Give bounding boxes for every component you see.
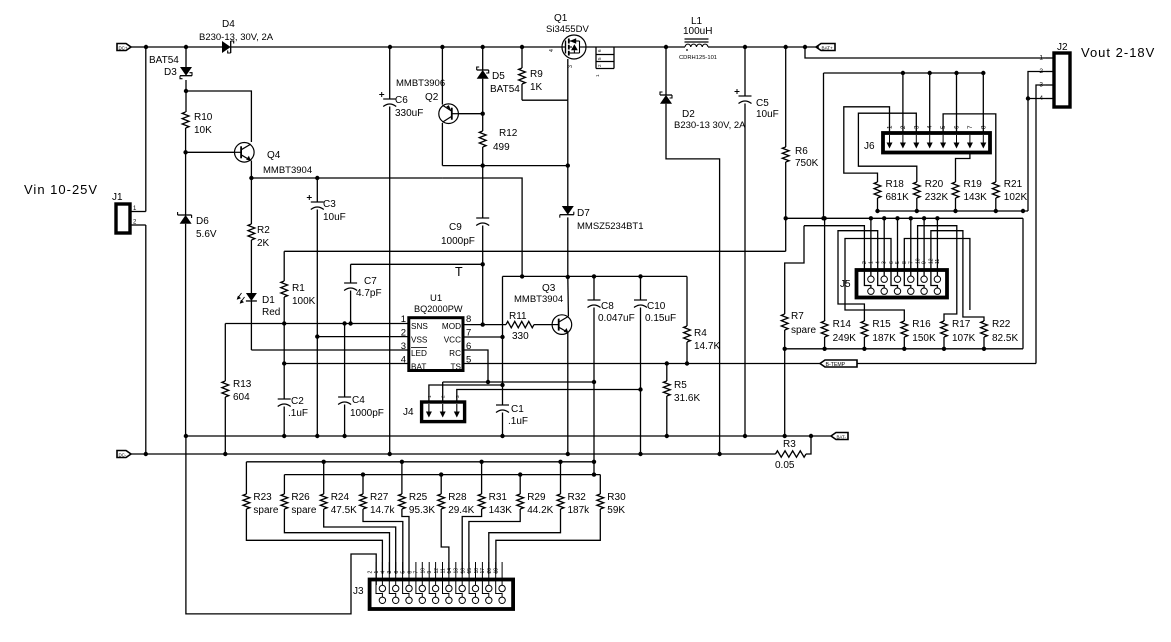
svg-text:R19: R19 (964, 179, 983, 190)
junction R18 bottom (875, 209, 879, 213)
resistor R28 29.4K (438, 475, 445, 514)
svg-text:681K: 681K (886, 192, 910, 203)
label J5 (840, 279, 851, 290)
resistor R6 750K (782, 47, 789, 251)
svg-text:Vin 10-25V: Vin 10-25V (24, 182, 98, 197)
svg-text:VCC: VCC (444, 336, 461, 345)
svg-text:spare: spare (291, 505, 316, 516)
svg-text:J6: J6 (864, 141, 875, 152)
wire route to J3 (489, 514, 561, 574)
svg-text:2: 2 (900, 125, 907, 129)
svg-text:R3: R3 (783, 439, 796, 450)
transistor Q4 MMBT3904 (235, 143, 255, 163)
label R10 value (194, 125, 212, 136)
label Q4 (267, 150, 281, 161)
wire top rail L1 to BAT+ (708, 46, 819, 48)
junction J6 even pin feed (981, 71, 985, 75)
svg-text:R12: R12 (499, 128, 518, 139)
svg-text:5: 5 (597, 57, 602, 60)
svg-text:12: 12 (434, 568, 440, 574)
junction fb rail tie (1021, 209, 1025, 213)
junction RC corner (486, 380, 490, 384)
junction J5 feed (882, 216, 886, 220)
junction C5 top (743, 45, 747, 49)
svg-text:2: 2 (862, 261, 868, 264)
junction Q4 emitter node (249, 176, 253, 180)
junction R27 top (361, 472, 365, 476)
wire D1 to U1 LED pin (251, 349, 408, 351)
net flag B-TEMP (820, 360, 857, 368)
junction C3 top (315, 176, 319, 180)
junction R24 top (322, 460, 326, 464)
svg-text:10: 10 (421, 568, 427, 574)
wire row rail y474 (284, 474, 600, 476)
label R21 (1004, 179, 1023, 190)
svg-text:MMBT3904: MMBT3904 (263, 165, 312, 176)
wire route to J3 (462, 514, 481, 574)
wire route to J3 (246, 514, 382, 574)
resistor R15 187K (861, 320, 868, 349)
svg-text:5: 5 (895, 261, 901, 264)
svg-text:2: 2 (401, 328, 406, 339)
junction D6 bottom on BAT- rail (184, 434, 188, 438)
wire TS pin5 to B-TEMP (463, 363, 820, 365)
junction D3 branch (184, 89, 188, 93)
Q1 pin number 4 (549, 49, 555, 52)
label R30 (607, 492, 626, 503)
svg-text:9: 9 (427, 571, 433, 574)
svg-text:7: 7 (466, 328, 471, 339)
svg-text:C6: C6 (395, 95, 408, 106)
junction Q2 top (440, 45, 444, 49)
svg-text:CDRH125-101: CDRH125-101 (679, 55, 717, 61)
label D4 value (199, 32, 274, 43)
diode D3 BAT54 (180, 47, 192, 112)
svg-text:R15: R15 (872, 319, 891, 330)
svg-text:B230-13, 30V, 2A: B230-13, 30V, 2A (199, 32, 274, 43)
svg-text:95.3K: 95.3K (409, 505, 435, 516)
resistor R27 14.7k (360, 475, 367, 514)
label R19 value (964, 192, 988, 203)
label D7 (577, 208, 590, 219)
label R27 (370, 492, 389, 503)
junction C6 bottom on DC- rail (388, 452, 392, 456)
label U1 part (414, 304, 463, 314)
svg-text:102K: 102K (1004, 192, 1028, 203)
label L1 part CDRH125-101 (679, 55, 717, 61)
svg-text:BAT+: BAT+ (822, 45, 834, 50)
svg-text:R6: R6 (795, 146, 808, 157)
wire J6 even pin drop (929, 73, 931, 133)
junction C4 bottom (342, 434, 346, 438)
label Vin 10-25V (24, 182, 98, 197)
svg-text:29.4K: 29.4K (448, 505, 474, 516)
svg-text:5.6V: 5.6V (196, 229, 217, 240)
svg-text:10uF: 10uF (756, 109, 779, 120)
svg-text:750K: 750K (795, 158, 819, 169)
junction C1 bottom (500, 434, 504, 438)
svg-text:D6: D6 (196, 216, 209, 227)
label R27 value (370, 505, 395, 516)
svg-text:R13: R13 (233, 379, 252, 390)
svg-text:15: 15 (467, 568, 473, 574)
junction R31 top (479, 460, 483, 464)
transistor Q3 MMBT3904 (552, 315, 572, 335)
svg-text:2K: 2K (257, 238, 270, 249)
label D1 (262, 295, 275, 306)
svg-text:7: 7 (414, 571, 420, 574)
wire route to J3 (441, 514, 449, 574)
wire rail218 right drop (1022, 218, 1024, 348)
svg-text:T: T (455, 265, 463, 279)
label C6 value (395, 108, 423, 119)
wire J5 top pin feed (923, 218, 925, 276)
connector J6 (883, 125, 990, 153)
wire J5 pin10 stub to R22 (931, 231, 984, 321)
svg-text:DC-: DC- (119, 452, 127, 457)
svg-text:C9: C9 (449, 222, 462, 233)
junction R5 bottom on BAT- rail (665, 434, 669, 438)
wire top rail VIN section (146, 46, 222, 48)
label R9 (530, 69, 543, 80)
svg-text:8: 8 (466, 314, 471, 325)
label R2 (257, 225, 270, 236)
svg-text:C2: C2 (291, 396, 304, 407)
label D5 (492, 71, 505, 82)
label J2 (1057, 42, 1068, 53)
junction R1 on SNS (282, 321, 286, 325)
junction C2 on BAT (282, 361, 286, 365)
junction R6 bottom rail218 (784, 216, 788, 220)
label R26 value (291, 505, 316, 516)
zener D6 5.6V (178, 152, 192, 436)
junction J5 feed (869, 216, 873, 220)
resistor R23 spare (243, 462, 250, 514)
label R17 value (952, 333, 976, 344)
svg-text:.1uF: .1uF (288, 408, 308, 419)
junction J5 feed (895, 216, 899, 220)
resistor R10 10K (182, 112, 189, 152)
svg-text:143K: 143K (964, 192, 988, 203)
connector J2 (1039, 53, 1070, 107)
label R6 value (795, 158, 819, 169)
svg-text:C1: C1 (511, 404, 524, 415)
label Q3 (542, 283, 556, 294)
svg-text:R7: R7 (791, 311, 804, 322)
junction J6 even pin feed (954, 71, 958, 75)
resistor R5 31.6K (663, 364, 670, 437)
junction C8 top (592, 274, 596, 278)
resistor R9 1K (519, 47, 526, 100)
svg-text:MOD: MOD (442, 322, 461, 331)
svg-text:R25: R25 (409, 492, 428, 503)
wire J5 feed rail y218 (786, 217, 1023, 219)
label R22 value (992, 333, 1018, 344)
label C7 (364, 276, 377, 287)
resistor R12 499 (479, 114, 486, 166)
wire Q2 emitter up (441, 47, 443, 105)
svg-text:BQ2000PW: BQ2000PW (414, 304, 463, 314)
svg-text:7: 7 (967, 125, 974, 129)
junction J1 pin1 on top rail (144, 45, 148, 49)
label R5 value (674, 393, 700, 404)
wire SNS pin1 (225, 323, 408, 325)
label R32 value (568, 505, 591, 516)
svg-text:4: 4 (876, 261, 882, 264)
net flag DC- (117, 451, 131, 458)
label C3 value (323, 212, 346, 223)
label R12 (499, 128, 518, 139)
wire J4 pin1 route (429, 385, 503, 402)
svg-text:R1: R1 (292, 283, 305, 294)
svg-text:249K: 249K (833, 333, 857, 344)
resistor R3 0.05 (776, 451, 807, 457)
svg-text:4: 4 (381, 571, 387, 574)
svg-text:4.7pF: 4.7pF (356, 288, 382, 299)
svg-text:D3: D3 (164, 67, 177, 78)
label R26 (291, 492, 310, 503)
label R29 value (527, 505, 553, 516)
label D5 part (490, 84, 520, 95)
label C2 (291, 396, 304, 407)
svg-text:R21: R21 (1004, 179, 1023, 190)
wire J5 top pin feed (897, 218, 899, 276)
label D6 value (196, 229, 217, 240)
label Q1 (554, 13, 568, 24)
wire J5 pin6 stub to R16 (845, 239, 904, 322)
junction J6 even pin feed (928, 71, 932, 75)
label R2 value (257, 238, 270, 249)
svg-text:100uH: 100uH (683, 26, 712, 37)
svg-text:100K: 100K (292, 296, 316, 307)
wire C10 ext to DC- rail (640, 390, 642, 455)
wire emitter node rail y178 (251, 177, 442, 179)
junction C10 bottom (638, 387, 642, 391)
label C1 (511, 404, 524, 415)
wire route to J3 (469, 514, 520, 574)
net flag BAT+ (816, 44, 835, 51)
wire J6 pin5 to R21 (943, 114, 996, 180)
svg-text:SNS: SNS (411, 322, 428, 331)
wire D3 node to Q4 collector (186, 91, 251, 142)
label C4 value (350, 408, 384, 419)
label Q4 part (263, 165, 312, 176)
wire J6 pin7 to R19 (956, 153, 970, 180)
junction R12 bottom (481, 163, 485, 167)
svg-text:R29: R29 (527, 492, 546, 503)
junction C3 bottom (315, 434, 319, 438)
svg-text:3: 3 (568, 65, 574, 68)
svg-text:Vout 2-18V: Vout 2-18V (1081, 45, 1155, 60)
svg-text:J2: J2 (1057, 42, 1068, 53)
label R15 value (872, 333, 896, 344)
label C5 (756, 98, 769, 109)
svg-text:BAT-: BAT- (837, 434, 847, 439)
svg-text:C8: C8 (601, 301, 614, 312)
junction C7 on SNS (348, 321, 352, 325)
svg-text:Q1: Q1 (554, 13, 568, 24)
resistor R1 100K (281, 251, 288, 323)
svg-text:D7: D7 (577, 208, 590, 219)
junction D5 top (481, 45, 485, 49)
resistor R4 14.7K (684, 276, 691, 363)
wire route to J3 (363, 514, 403, 574)
label C9 (449, 222, 462, 233)
label Q2 part (396, 78, 445, 89)
junction Q3 emitter on DC- rail (566, 452, 570, 456)
wire J6 even pin drop (982, 73, 984, 133)
wire DC- rail (131, 453, 776, 455)
junction R32 top (558, 460, 562, 464)
label R11 (509, 311, 527, 322)
svg-text:6: 6 (954, 125, 961, 129)
label R4 value (694, 341, 720, 352)
wire R14 top feed (824, 218, 826, 321)
label D7 part (577, 221, 644, 232)
svg-text:R10: R10 (194, 112, 213, 123)
wire divider bottom rail y211 (878, 210, 1029, 212)
svg-text:U1: U1 (430, 293, 442, 304)
label C6 (395, 95, 408, 106)
junction R22 bottom (982, 347, 986, 351)
resistor R18 681K (874, 180, 881, 211)
label D1 color (262, 307, 280, 318)
Q1 drain pin stubs box (595, 47, 614, 77)
svg-text:1000pF: 1000pF (350, 408, 384, 419)
label Vout 2-18V (1081, 45, 1155, 60)
junction C8 bottom (592, 380, 596, 384)
junction C8 ext on RC line (592, 460, 596, 464)
wire Q4 base (186, 151, 235, 153)
svg-text:.1uF: .1uF (508, 416, 528, 427)
wire route to J3 (496, 514, 600, 574)
label R1 value (292, 296, 316, 307)
wire Q4 emitter down (250, 161, 252, 179)
capacitor C10 0.15uF (634, 276, 647, 389)
svg-text:10: 10 (915, 258, 921, 264)
svg-text:12: 12 (929, 258, 935, 264)
capacitor C7 4.7pF (344, 264, 357, 323)
junction C2 bottom (282, 434, 286, 438)
svg-text:10uF: 10uF (323, 212, 346, 223)
svg-text:C7: C7 (364, 276, 377, 287)
svg-text:MMBT3906: MMBT3906 (396, 78, 445, 89)
svg-text:18: 18 (474, 568, 480, 574)
svg-text:R14: R14 (833, 319, 852, 330)
label R17 (952, 319, 971, 330)
resistor R29 44.2K (517, 475, 524, 514)
resistor R22 82.5K (981, 320, 988, 349)
wire Q3 emitter down (567, 333, 569, 454)
zener D7 MMSZ5234BT1 (560, 100, 574, 277)
svg-text:8: 8 (902, 261, 908, 264)
label R30 value (607, 505, 625, 516)
label C8 (601, 301, 614, 312)
svg-text:TS: TS (451, 363, 462, 372)
junction R5 top (665, 361, 669, 365)
wire J2 pin4 join (1028, 98, 1046, 100)
label R31 value (489, 505, 513, 516)
resistor R24 47.5K (320, 462, 327, 514)
label R14 value (833, 333, 857, 344)
LED D1 Red (237, 293, 257, 350)
wire gate drive loop bottom (442, 165, 567, 167)
svg-text:16: 16 (461, 568, 467, 574)
junction R15 bottom (862, 347, 866, 351)
svg-text:spare: spare (253, 505, 278, 516)
wire J5 top pin feed (883, 218, 885, 276)
junction MOD pin tap (481, 322, 485, 326)
svg-text:D4: D4 (222, 19, 235, 30)
wire J6 pin1 to R18 (844, 107, 890, 180)
junction C10 top (638, 274, 642, 278)
wire D6 column to J3 route (186, 436, 376, 614)
resistor R20 232K (913, 180, 920, 211)
wire J2 pin3 to B-TEMP net (1036, 85, 1046, 364)
junction Q2 base node (481, 112, 485, 116)
svg-text:7: 7 (908, 261, 914, 264)
inductor L1 100uH (685, 39, 709, 51)
svg-text:C3: C3 (323, 199, 336, 210)
wire route to J3 (324, 514, 396, 574)
junction C10 ext (638, 452, 642, 456)
junction C4 on SNS (342, 321, 346, 325)
wire BAT- branch to R3 (806, 436, 811, 454)
label R18 value (886, 192, 910, 203)
junction VCC rail tap (520, 274, 524, 278)
label J4 (403, 407, 414, 418)
wire J6 feed rail y73 (824, 72, 985, 74)
wire J6 pin3 to R20 (858, 113, 916, 180)
capacitor C4 1000pF (338, 324, 351, 437)
label L1 value (683, 26, 712, 37)
wire R1-R6 rail y251 (284, 250, 786, 252)
resistor R30 59K (597, 475, 604, 514)
label R16 value (912, 333, 936, 344)
junction J5 feed (909, 216, 913, 220)
svg-text:3: 3 (882, 261, 888, 264)
label C7 value (356, 288, 382, 299)
junction R6 top (784, 45, 788, 49)
svg-text:17: 17 (480, 568, 486, 574)
capacitor C5 10uF (735, 47, 752, 436)
svg-text:R30: R30 (607, 492, 626, 503)
svg-text:Q2: Q2 (425, 92, 439, 103)
label BAT54 (D3) (149, 55, 179, 66)
resistor R2 2K (248, 178, 255, 293)
label R23 value (253, 505, 278, 516)
resistor R25 95.3K (399, 462, 406, 514)
net flag DC+ (117, 44, 146, 51)
wire top rail Q1 to L1 (586, 46, 685, 48)
svg-text:604: 604 (233, 392, 250, 403)
label R28 (448, 492, 467, 503)
junction R14 bottom (822, 347, 826, 351)
label R25 (409, 492, 428, 503)
wire J6 even pin drop (956, 73, 958, 133)
wire VCC pin7 (463, 336, 503, 338)
wire R7 top route (785, 226, 804, 313)
label D4 (222, 19, 235, 30)
wire Q2 base to D5/R12 node (458, 113, 482, 115)
svg-text:6: 6 (394, 571, 400, 574)
wire J5 pin8 stub to R17 (918, 226, 957, 321)
junction C5 bottom on BAT- rail (743, 434, 747, 438)
svg-text:Si3455DV: Si3455DV (546, 24, 589, 35)
svg-text:14.7k: 14.7k (370, 505, 395, 516)
label R3 (783, 439, 796, 450)
transistor Q2 MMBT3906 (439, 104, 459, 124)
